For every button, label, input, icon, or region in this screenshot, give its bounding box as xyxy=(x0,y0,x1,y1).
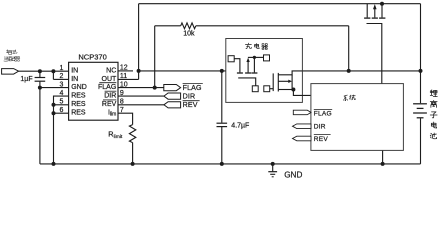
svg-text:IN: IN xyxy=(71,76,78,83)
wire battery positive drop xyxy=(420,71,422,103)
svg-text:RES: RES xyxy=(71,93,86,100)
resistor R2 Rlimit xyxy=(129,125,135,143)
svg-text:REV: REV xyxy=(183,101,198,109)
svg-text:REV: REV xyxy=(314,136,329,143)
wire vertical from top bus down to OUT pin 11 xyxy=(138,4,140,80)
wire ground rail xyxy=(40,163,421,165)
svg-text:5: 5 xyxy=(59,99,63,106)
node Q3 source-body tie xyxy=(291,88,295,92)
terminal square gate lower-right xyxy=(264,86,270,92)
svg-text:Ilim: Ilim xyxy=(108,110,116,118)
node system ground xyxy=(381,162,385,166)
ground symbol GND xyxy=(272,164,274,172)
connector J1 wall adapter plug xyxy=(2,69,19,75)
wire terminal to mirror source leg xyxy=(234,59,240,73)
wire RES pin 6 stub xyxy=(54,112,69,114)
node OUT junction on vertical xyxy=(137,69,141,73)
svg-text:10k: 10k xyxy=(183,30,195,37)
svg-text:OUT: OUT xyxy=(102,76,118,83)
wire RES pin 5 stub xyxy=(54,104,69,106)
wire charger output to system block xyxy=(293,90,311,96)
terminal square top-left in charger xyxy=(228,56,234,62)
wire FLAG vertical riser to 10k xyxy=(154,26,156,88)
svg-text:11: 11 xyxy=(120,73,127,80)
wire 10k right segment xyxy=(196,25,349,27)
svg-text:FLAG: FLAG xyxy=(98,84,116,91)
svg-text:NCP370: NCP370 xyxy=(78,53,106,62)
transistor Q2 charger current-mirror pmos pair xyxy=(237,72,243,74)
wire top bus drop to battery junction xyxy=(420,4,422,71)
node battery positive junction xyxy=(419,69,423,73)
label charger (Chinese) xyxy=(245,43,251,49)
wire Q1 gate to system block xyxy=(367,24,382,84)
node Rlimit ground xyxy=(131,162,135,166)
flag FLAG output tag xyxy=(164,85,181,91)
node IN pin tie xyxy=(51,69,55,73)
wire square to nmos gate xyxy=(270,88,274,90)
charger block box xyxy=(226,39,303,103)
svg-text:GND: GND xyxy=(284,171,302,180)
node Q1 drain on top bus xyxy=(380,2,384,6)
node 10k pull-up tap xyxy=(347,69,351,73)
svg-text:6: 6 xyxy=(59,107,63,114)
svg-text:DIR: DIR xyxy=(314,124,326,131)
flag REV out of system xyxy=(293,136,312,141)
wire Ilim pin 7 to Rlimit xyxy=(118,113,133,124)
svg-text:FLAG: FLAG xyxy=(183,84,202,92)
svg-text:DIR: DIR xyxy=(104,93,116,100)
svg-text:2: 2 xyxy=(59,73,63,80)
label lithium-ion battery (Chinese, vertical) xyxy=(430,90,437,97)
svg-text:NC: NC xyxy=(106,67,116,74)
transistor Q3 charger pass nmos xyxy=(272,73,274,91)
terminal square top-right in charger xyxy=(264,55,270,61)
wire C1 ground drop xyxy=(39,88,41,164)
wire 10k left segment xyxy=(155,25,181,27)
svg-text:RES: RES xyxy=(71,110,86,117)
capacitor C2 4.7uF xyxy=(221,71,223,123)
terminal square gate lower-left xyxy=(252,86,258,92)
label wall adapter (Chinese) xyxy=(6,50,11,55)
node RES6 xyxy=(52,111,56,115)
flag REV input tag xyxy=(164,102,181,108)
wire OUT pin 11 stub xyxy=(118,78,139,80)
flag FLAG into system xyxy=(293,110,311,115)
svg-text:FLAG: FLAG xyxy=(314,110,332,117)
svg-text:4.7µF: 4.7µF xyxy=(231,123,249,130)
pin 12 NC stub xyxy=(118,70,133,72)
wire OUT net right segment from charger to battery xyxy=(302,70,420,72)
wire mirror gate bracket xyxy=(238,78,256,86)
resistor R1 10k xyxy=(181,23,196,29)
svg-text:DIR: DIR xyxy=(183,92,196,100)
node charger ground xyxy=(271,162,275,166)
wire FLAG pin 10 to flag xyxy=(118,87,164,89)
wire GND pin 3 stub xyxy=(40,87,69,89)
op-amp U1 NCP370 body xyxy=(69,62,118,120)
wire OUT net left segment to charger block xyxy=(139,70,226,72)
svg-text:3: 3 xyxy=(59,81,63,88)
flag DIR input tag xyxy=(164,93,181,99)
node FLAG xyxy=(153,86,157,90)
wire DIR pin 9 to flag xyxy=(118,95,164,97)
node RES5 xyxy=(52,103,56,107)
svg-text:4: 4 xyxy=(59,90,63,97)
label system (Chinese) xyxy=(343,95,347,101)
svg-text:1µF: 1µF xyxy=(20,76,32,83)
wire input to IN pins xyxy=(19,70,69,72)
wire VIN top bus (OUT to load switch to battery) xyxy=(139,3,421,5)
wire REV pin 8 to flag xyxy=(118,104,164,106)
wire battery negative to ground rail xyxy=(420,118,422,163)
flag DIR out of system xyxy=(293,124,312,129)
svg-text:1: 1 xyxy=(59,65,63,72)
system block box xyxy=(311,84,404,151)
svg-text:REV: REV xyxy=(102,101,117,108)
svg-text:IN: IN xyxy=(71,68,78,75)
wire IN1-IN2 bridge xyxy=(52,71,54,79)
node GND pin tie / C1 bottom xyxy=(38,86,42,90)
svg-text:Rlimit: Rlimit xyxy=(108,130,123,141)
wire 10k drop to OUT net xyxy=(348,26,350,71)
capacitor C1 1uF xyxy=(39,71,41,77)
node 1uF tap xyxy=(38,69,42,73)
wire RES pin 4 bracket xyxy=(54,96,69,164)
node RES ground xyxy=(52,162,56,166)
node C2 ground xyxy=(220,162,224,166)
svg-text:GND: GND xyxy=(71,84,87,91)
wire Rlimit to ground xyxy=(132,143,134,164)
svg-text:RES: RES xyxy=(71,101,86,108)
node 4.7uF tap xyxy=(220,69,224,73)
battery BT1 lithium-ion xyxy=(413,103,427,105)
transistor Q1 load switch pmos xyxy=(366,4,368,18)
wire system block ground drop xyxy=(382,150,384,164)
